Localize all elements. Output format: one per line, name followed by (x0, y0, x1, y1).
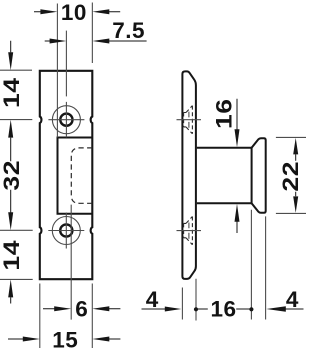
dimension 7.5: hole centreline extension (65, 31, 67, 97)
front view: hidden slot (dashed rounded) (71, 148, 92, 203)
svg-text:15: 15 (52, 327, 78, 350)
left chain dimensions: dimension line segments (10, 41, 12, 304)
svg-text:14: 14 (0, 77, 24, 108)
front view: strike plate outline with side notches (40, 71, 93, 279)
side view: stud head (252, 138, 266, 213)
side view: hole bottom centrelines (177, 223, 202, 239)
bottom dimensions 6 and 15: extension lines (40, 205, 93, 348)
dimension 7.5: arrows and tails (45, 40, 147, 42)
side view: hidden countersunk hole top (dashed) (184, 106, 193, 134)
front view: screw hole top, bore circle (60, 114, 72, 126)
svg-text:14: 14 (0, 240, 24, 271)
svg-text:16: 16 (212, 98, 237, 129)
bottom chain 4/16/4: extension lines (182, 210, 265, 321)
svg-text:7.5: 7.5 (112, 18, 145, 43)
svg-text:10: 10 (61, 0, 87, 25)
svg-text:22: 22 (279, 161, 304, 192)
dimension 22: extension lines (276, 137, 306, 213)
front view: screw hole bottom crosshair (48, 213, 84, 249)
side view: stud neck (197, 148, 252, 204)
svg-text:4: 4 (146, 287, 159, 312)
bottom chain: right 4 arrow and tail (285, 308, 304, 310)
front view: screw hole top crosshair (48, 102, 84, 137)
dimension 10: arrows and tails (34, 11, 120, 13)
svg-text:4: 4 (286, 287, 299, 312)
side view: hole top centrelines (177, 112, 202, 128)
dimension 16 vertical: dimension lines (236, 99, 238, 233)
left chain dimensions: arrowheads (8, 52, 13, 70)
svg-text:32: 32 (0, 160, 24, 191)
dimension 22: arrowheads (293, 138, 298, 155)
side view: hidden countersunk hole bottom (dashed) (184, 217, 193, 245)
front view: screw hole bottom, countersink circle (52, 217, 80, 245)
front view: screw hole bottom, bore circle (60, 224, 72, 236)
side view: plate profile (182, 71, 196, 279)
bottom chain: 16 dimension line with dots (196, 308, 251, 310)
left chain dimensions 14/32/14: extension lines (0, 70, 33, 279)
dimension 15: arrows and tails (8, 338, 120, 340)
svg-text:16: 16 (210, 297, 236, 322)
bottom chain: left 4 arrow and tail (142, 308, 166, 310)
dimension 10: extension lines (57, 3, 92, 138)
svg-text:6: 6 (75, 297, 88, 322)
dimension 6: arrows and tails (43, 308, 120, 310)
front view: central recess pocket (58, 138, 93, 214)
dimension 16 vertical: arrowheads (235, 129, 240, 147)
dimension 22: dimension line segments (295, 154, 297, 196)
front view: screw hole top, countersink circle (52, 106, 80, 134)
